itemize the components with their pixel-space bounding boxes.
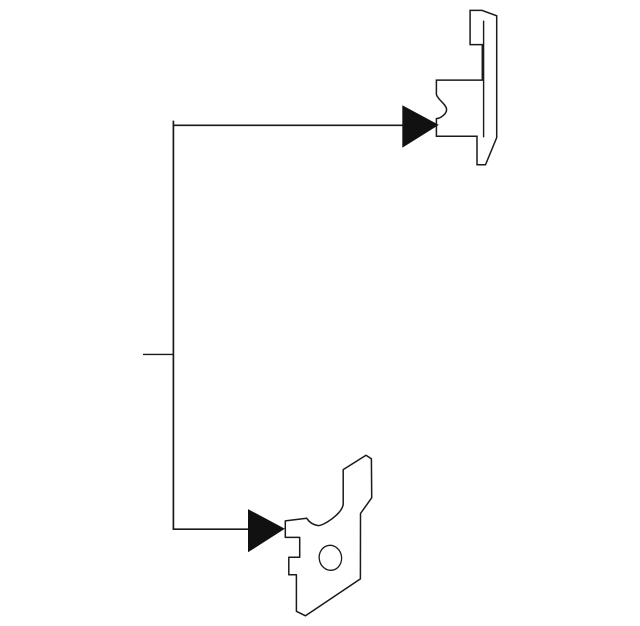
part: bottom bracket outline — [285, 455, 371, 616]
wire: vertical leader trunk — [172, 121, 174, 530]
wire: bottom leader branch — [173, 528, 249, 530]
edge line: inner face edge of sill board — [483, 21, 485, 137]
wire: top leader branch — [173, 124, 403, 126]
arrowhead: top arrow — [402, 105, 439, 148]
arrowhead: bottom arrow — [248, 509, 285, 552]
part: top sill profile outline — [436, 10, 496, 164]
hole in bottom bracket — [318, 544, 344, 572]
wire: short tick on trunk — [143, 353, 173, 355]
